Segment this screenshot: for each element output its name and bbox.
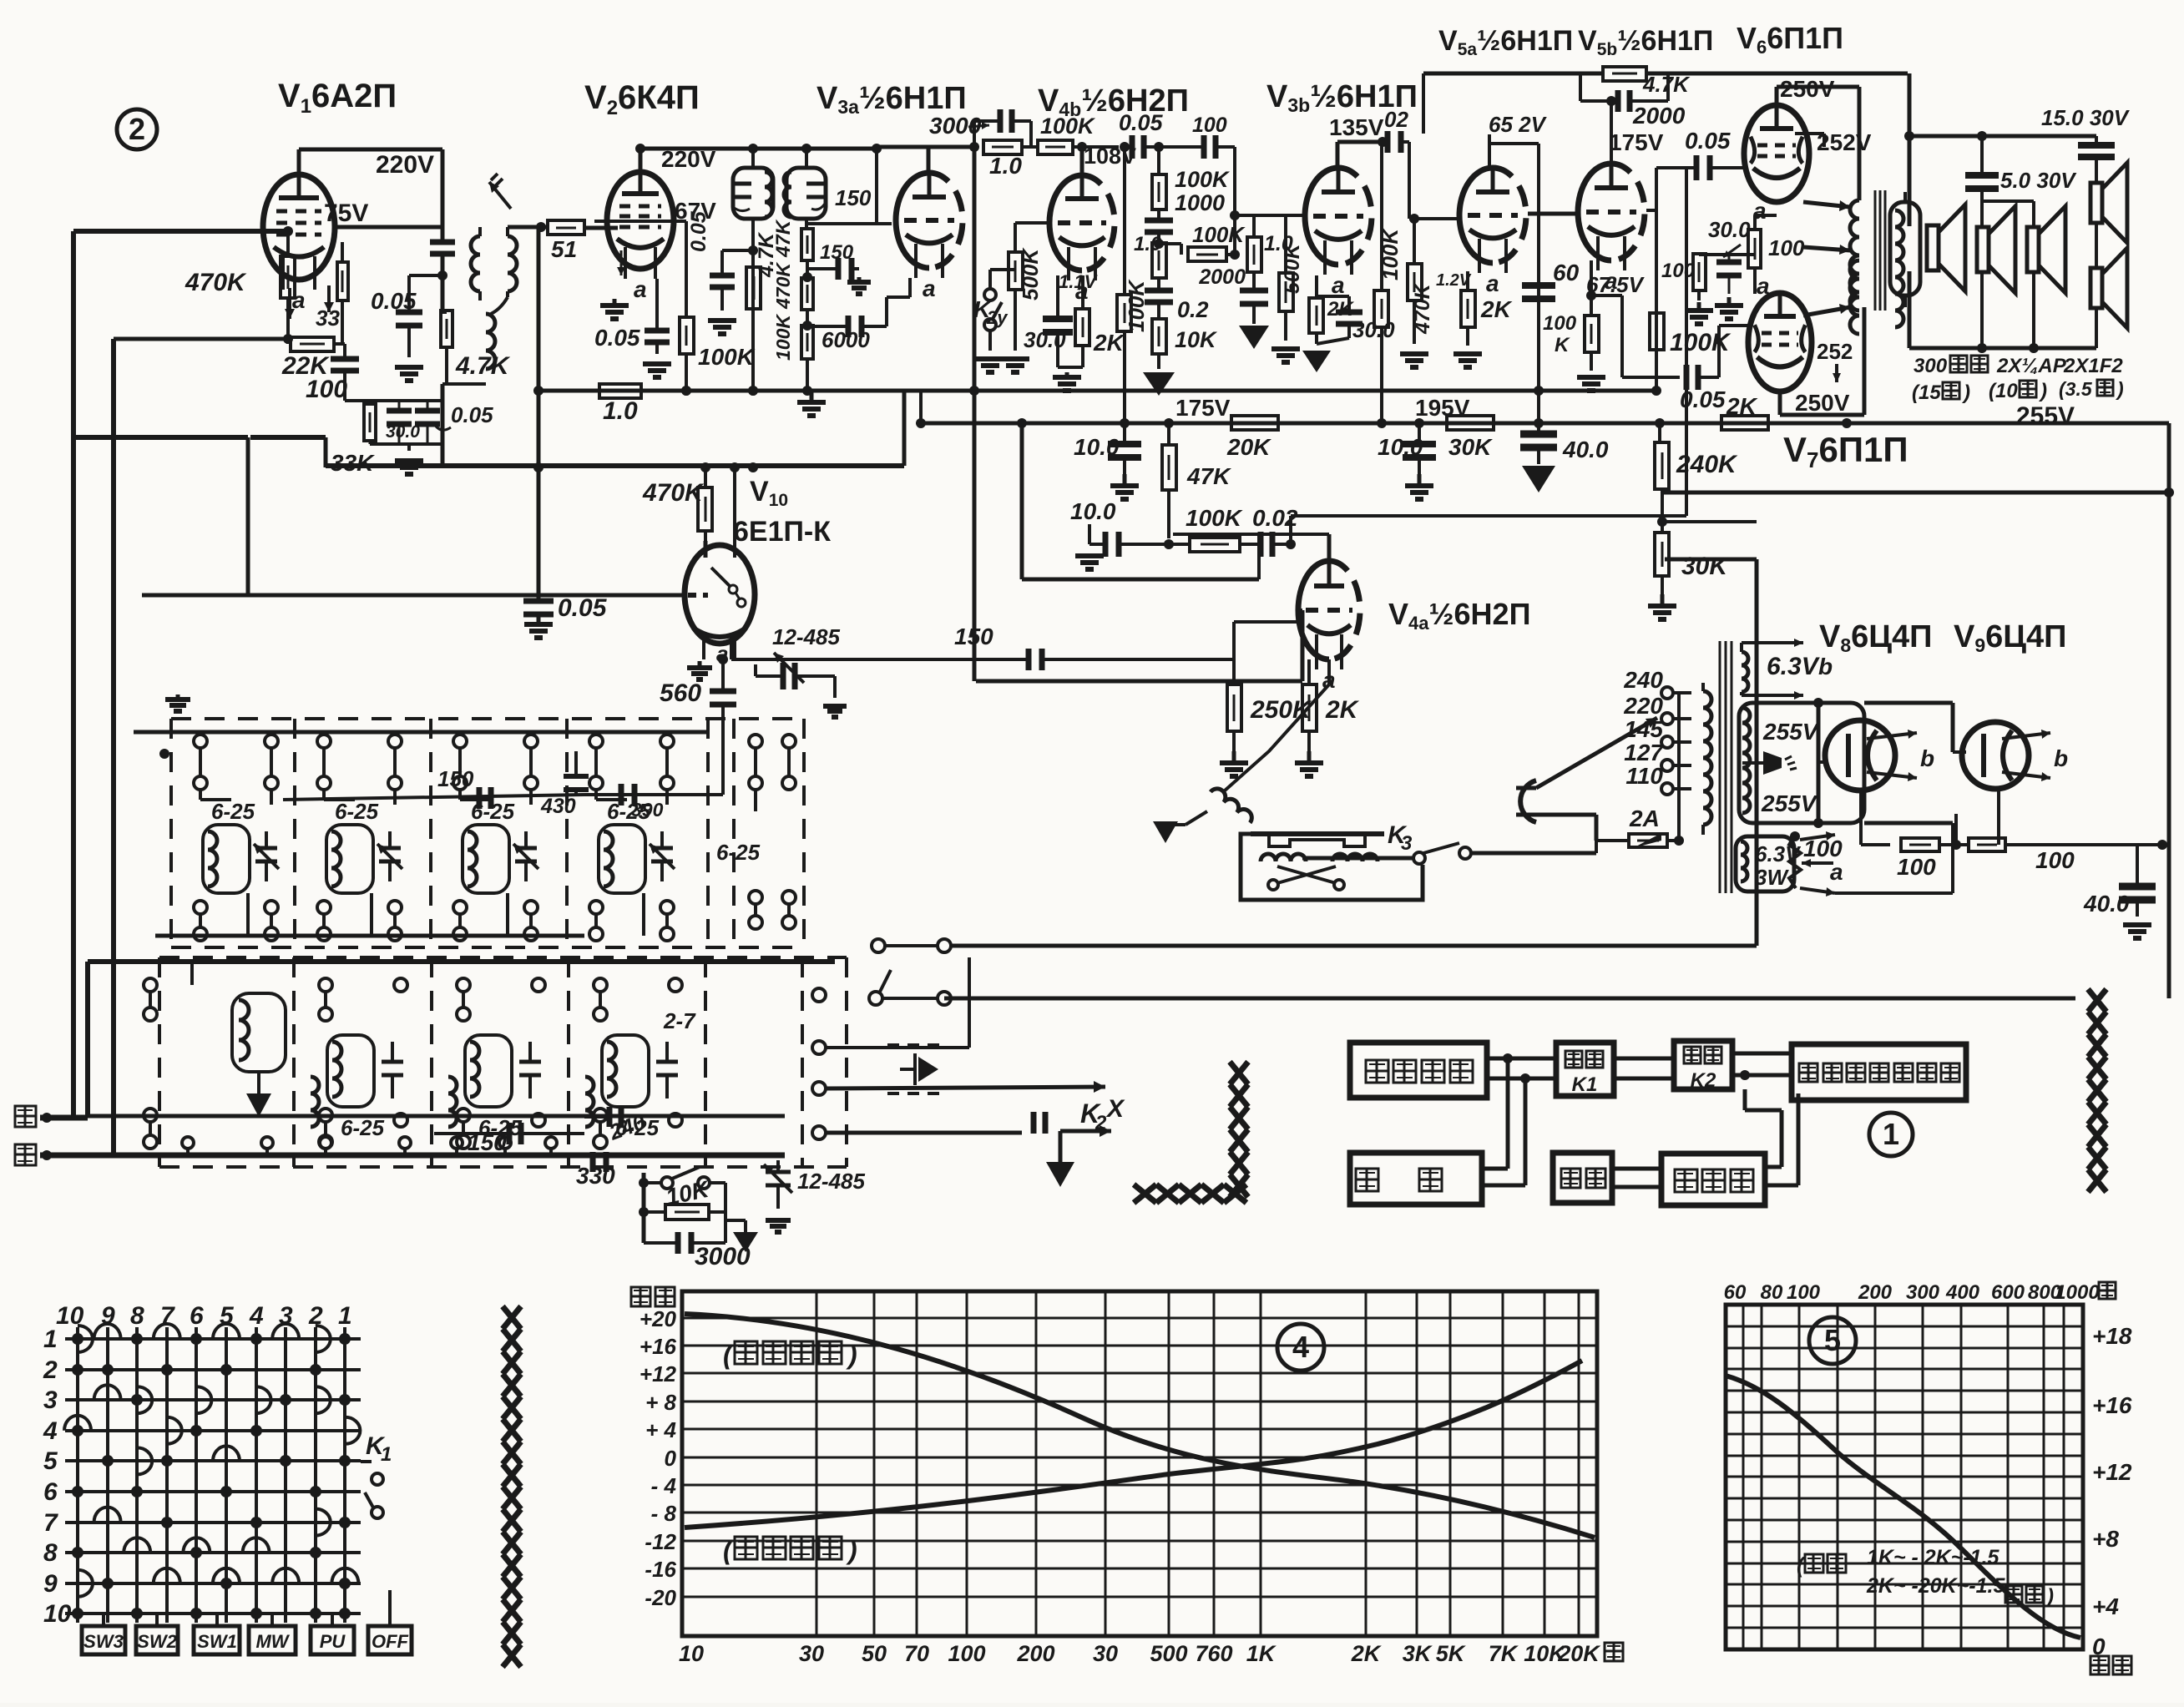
svg-text:0: 0	[665, 1446, 677, 1471]
svg-text:2K: 2K	[1726, 393, 1758, 419]
svg-text:2A: 2A	[1629, 806, 1660, 831]
svg-text:30.0: 30.0	[1024, 327, 1066, 352]
svg-text:2-7: 2-7	[663, 1008, 696, 1033]
svg-text:7K: 7K	[1489, 1641, 1519, 1666]
svg-text:150: 150	[954, 624, 993, 649]
svg-text:0.2: 0.2	[1177, 297, 1209, 322]
svg-text:330: 330	[576, 1163, 615, 1189]
svg-text:40.0: 40.0	[2083, 891, 2130, 917]
svg-text:100K: 100K	[1175, 167, 1231, 192]
svg-text:600: 600	[1991, 1281, 2025, 1304]
svg-text:-12: -12	[645, 1529, 676, 1554]
svg-text:0.05: 0.05	[371, 288, 417, 314]
svg-text:1.0: 1.0	[603, 397, 638, 425]
svg-text:40.0: 40.0	[1562, 437, 1609, 462]
svg-text:V96Ц4П: V96Ц4П	[1954, 619, 2067, 656]
svg-text:a: a	[1332, 272, 1345, 298]
svg-text:400: 400	[1945, 1281, 1980, 1304]
svg-text:b: b	[1920, 745, 1934, 771]
svg-text:51: 51	[551, 236, 577, 262]
svg-text:240: 240	[1623, 667, 1663, 693]
svg-text:2K: 2K	[1480, 296, 1513, 322]
svg-text:a: a	[1486, 270, 1499, 296]
svg-text:252: 252	[1817, 339, 1853, 364]
svg-text:470K: 470K	[642, 479, 705, 507]
svg-text:10: 10	[43, 1600, 72, 1628]
svg-text:20K: 20K	[1226, 434, 1271, 460]
svg-text:5: 5	[1824, 1323, 1841, 1357]
svg-text:500K: 500K	[1281, 242, 1304, 294]
svg-text:-20: -20	[645, 1585, 676, 1610]
svg-text:1.1V: 1.1V	[1059, 271, 1099, 292]
svg-text:K: K	[1555, 334, 1570, 356]
svg-text:a: a	[1830, 859, 1843, 885]
svg-text:255V: 255V	[1762, 719, 1820, 745]
svg-text:100: 100	[1192, 114, 1227, 137]
svg-text:30K: 30K	[1448, 434, 1493, 460]
svg-text:500K: 500K	[1018, 247, 1043, 300]
svg-text:4.7K: 4.7K	[455, 352, 511, 380]
svg-text:100K: 100K	[1378, 227, 1403, 280]
svg-text:2: 2	[43, 1356, 58, 1384]
svg-text:560: 560	[660, 679, 701, 707]
svg-text:135V: 135V	[1329, 114, 1384, 140]
svg-text:500: 500	[1150, 1641, 1187, 1666]
svg-text:6-25: 6-25	[341, 1115, 385, 1140]
svg-text:200: 200	[1858, 1281, 1893, 1304]
svg-text:200: 200	[1016, 1641, 1054, 1666]
svg-text:V66П1П: V66П1П	[1737, 21, 1843, 58]
svg-text:5K: 5K	[1436, 1641, 1467, 1666]
svg-text:V26К4П: V26К4П	[584, 79, 700, 119]
svg-text:6.3V: 6.3V	[1755, 841, 1802, 866]
svg-text:10: 10	[679, 1641, 704, 1666]
svg-text:430: 430	[540, 795, 576, 818]
svg-text:0.05: 0.05	[558, 594, 608, 622]
svg-text:9: 9	[43, 1570, 58, 1598]
svg-text:2X1F2: 2X1F2	[2063, 355, 2123, 377]
svg-text:2K: 2K	[1093, 330, 1125, 356]
svg-text:100K: 100K	[1670, 329, 1732, 356]
svg-text:6-25: 6-25	[211, 799, 255, 824]
svg-text:110: 110	[1625, 763, 1663, 789]
svg-text:(15: (15	[1912, 381, 1941, 404]
svg-text:+18: +18	[2092, 1323, 2132, 1349]
svg-text:760: 760	[1195, 1641, 1232, 1666]
svg-text:1: 1	[381, 1443, 392, 1466]
svg-text:3: 3	[1401, 832, 1413, 855]
svg-text:+4: +4	[2092, 1593, 2119, 1619]
svg-text:K1: K1	[1572, 1073, 1598, 1096]
svg-text:300: 300	[1914, 355, 1948, 377]
svg-text:100: 100	[1897, 854, 1936, 880]
svg-text:2у: 2у	[986, 307, 1009, 328]
svg-text:2: 2	[129, 112, 145, 146]
svg-text:60: 60	[1553, 260, 1580, 285]
svg-text:15.0 30V: 15.0 30V	[2041, 105, 2131, 130]
svg-text:30K: 30K	[1681, 553, 1729, 580]
svg-text:470K: 470K	[772, 262, 794, 310]
svg-text:100: 100	[1803, 836, 1843, 861]
svg-text:100K: 100K	[698, 344, 756, 370]
svg-text:100: 100	[1543, 312, 1577, 335]
svg-text:3W: 3W	[1755, 865, 1789, 890]
svg-text:2K: 2K	[1325, 696, 1360, 724]
svg-text:10.0: 10.0	[1070, 498, 1116, 524]
svg-text:3: 3	[43, 1386, 58, 1414]
svg-text:5: 5	[43, 1447, 58, 1475]
svg-text:100K: 100K	[1124, 279, 1149, 332]
svg-text:100: 100	[2035, 847, 2075, 873]
svg-text:OFF: OFF	[372, 1631, 409, 1652]
svg-text:a: a	[634, 276, 647, 302]
svg-text:100K: 100K	[1040, 114, 1096, 139]
svg-text:80: 80	[1761, 1281, 1783, 1304]
svg-text:5.0 30V: 5.0 30V	[2000, 168, 2077, 193]
svg-text:175V: 175V	[1609, 129, 1664, 155]
svg-text:4: 4	[249, 1302, 264, 1330]
svg-text:10K: 10K	[1175, 327, 1218, 352]
svg-text:+12: +12	[640, 1361, 677, 1386]
svg-text:0.05: 0.05	[451, 402, 493, 427]
svg-text:6.3V: 6.3V	[1767, 653, 1821, 680]
svg-text:33K: 33K	[331, 450, 375, 476]
svg-text:-16: -16	[645, 1557, 676, 1582]
svg-text:6Е1П-К: 6Е1П-К	[733, 516, 831, 548]
svg-text:100: 100	[948, 1641, 985, 1666]
svg-text:+ 4: + 4	[645, 1417, 676, 1442]
svg-text:1000: 1000	[2055, 1281, 2100, 1304]
svg-text:0.05: 0.05	[594, 325, 640, 351]
svg-text:6-25: 6-25	[335, 799, 379, 824]
svg-text:220: 220	[1623, 693, 1663, 719]
svg-text:127: 127	[1624, 740, 1664, 765]
svg-text:12-485: 12-485	[797, 1169, 865, 1194]
svg-text:100K: 100K	[1192, 222, 1246, 247]
svg-text:- 4: - 4	[651, 1473, 677, 1498]
svg-text:- 8: - 8	[651, 1501, 677, 1526]
svg-text:(10: (10	[1989, 380, 2018, 402]
svg-text:+16: +16	[2092, 1392, 2132, 1418]
svg-text:47K: 47K	[772, 219, 795, 258]
svg-text:(3.5: (3.5	[2059, 378, 2093, 400]
svg-text:+20: +20	[640, 1306, 677, 1331]
svg-text:4: 4	[1292, 1330, 1309, 1364]
svg-text:255V: 255V	[1761, 790, 1818, 816]
svg-text:470K: 470K	[1411, 282, 1434, 335]
svg-text:6000: 6000	[822, 327, 870, 352]
svg-text:145: 145	[1624, 716, 1663, 742]
svg-text:6-25: 6-25	[716, 840, 761, 865]
svg-text:1.0: 1.0	[989, 153, 1022, 179]
svg-text:50: 50	[862, 1641, 887, 1666]
svg-text:10.0: 10.0	[1074, 434, 1120, 460]
svg-text:33: 33	[316, 306, 340, 331]
svg-text:250V: 250V	[1795, 390, 1850, 416]
svg-text:+ 8: + 8	[645, 1390, 676, 1415]
svg-text:2X¼AP: 2X¼AP	[1996, 355, 2067, 377]
svg-text:+16: +16	[640, 1334, 677, 1359]
svg-text:0.05: 0.05	[1119, 110, 1164, 135]
svg-text:V86Ц4П: V86Ц4П	[1819, 619, 1933, 656]
svg-text:b: b	[2054, 745, 2068, 771]
svg-text:47K: 47K	[1186, 463, 1231, 489]
svg-text:1: 1	[338, 1302, 352, 1330]
svg-text:a: a	[923, 275, 936, 301]
svg-text:K2: K2	[1691, 1069, 1716, 1092]
svg-text:100: 100	[1661, 260, 1696, 282]
svg-text:2000: 2000	[1198, 265, 1246, 289]
svg-text:6: 6	[43, 1478, 58, 1506]
svg-text:+12: +12	[2092, 1459, 2132, 1485]
svg-text:2K~ -20K~-1.5: 2K~ -20K~-1.5	[1866, 1574, 2005, 1598]
svg-text:1: 1	[1883, 1117, 1899, 1151]
svg-text:60: 60	[1724, 1281, 1747, 1304]
svg-text:100: 100	[1768, 235, 1805, 260]
svg-text:175V: 175V	[1175, 395, 1231, 421]
svg-text:255V: 255V	[2016, 402, 2075, 430]
svg-text:30: 30	[1093, 1641, 1118, 1666]
svg-text:390: 390	[631, 799, 664, 821]
svg-text:8: 8	[43, 1539, 58, 1567]
svg-text:2000: 2000	[1632, 103, 1686, 129]
svg-text:MW: MW	[255, 1631, 290, 1652]
svg-text:30.0: 30.0	[1352, 317, 1395, 342]
svg-text:75V: 75V	[324, 199, 368, 227]
svg-text:12-485: 12-485	[772, 624, 840, 649]
svg-text:a: a	[1757, 273, 1770, 299]
svg-text:100K: 100K	[1186, 505, 1243, 531]
svg-text:150: 150	[835, 185, 872, 210]
svg-text:220V: 220V	[376, 151, 434, 179]
svg-text:2K: 2K	[1351, 1641, 1383, 1666]
svg-text:1: 1	[43, 1326, 58, 1353]
svg-text:10.0: 10.0	[1378, 434, 1423, 460]
svg-text:8: 8	[130, 1302, 144, 1330]
svg-text:30.0: 30.0	[386, 422, 420, 442]
svg-text:30.0: 30.0	[1708, 217, 1751, 242]
svg-text:6: 6	[190, 1302, 204, 1330]
svg-text:70: 70	[904, 1641, 929, 1666]
svg-text:7: 7	[43, 1509, 58, 1537]
svg-text:+8: +8	[2092, 1526, 2119, 1552]
svg-text:30: 30	[799, 1641, 824, 1666]
svg-text:SW3: SW3	[83, 1631, 124, 1652]
svg-text:240K: 240K	[1676, 451, 1738, 478]
svg-text:20K: 20K	[1557, 1641, 1601, 1666]
svg-text:X: X	[1105, 1095, 1125, 1123]
svg-text:150: 150	[820, 241, 854, 264]
svg-text:PU: PU	[320, 1631, 346, 1652]
svg-text:470K: 470K	[185, 269, 247, 296]
svg-text:SW2: SW2	[137, 1631, 177, 1652]
svg-text:3000: 3000	[695, 1243, 751, 1270]
svg-text:3K: 3K	[1403, 1641, 1433, 1666]
svg-text:1000: 1000	[1175, 190, 1225, 215]
svg-text:4: 4	[43, 1417, 58, 1445]
svg-text:V76П1П: V76П1П	[1783, 430, 1908, 472]
svg-text:0.05: 0.05	[1685, 128, 1731, 154]
svg-text:100: 100	[1787, 1281, 1821, 1304]
svg-text:02: 02	[1384, 107, 1408, 132]
svg-text:220V: 220V	[661, 146, 716, 172]
svg-text:1K: 1K	[1246, 1641, 1277, 1666]
svg-text:): )	[846, 1535, 857, 1565]
svg-text:65 2V: 65 2V	[1489, 112, 1548, 137]
svg-text:): )	[846, 1340, 857, 1370]
svg-text:V16А2П: V16А2П	[278, 78, 397, 118]
svg-text:SW1: SW1	[197, 1631, 237, 1652]
svg-text:100: 100	[306, 376, 347, 403]
svg-text:0.05: 0.05	[687, 210, 710, 252]
svg-text:150: 150	[437, 766, 474, 791]
svg-text:b: b	[1818, 654, 1833, 679]
svg-text:100K: 100K	[772, 314, 794, 361]
svg-text:300: 300	[1906, 1281, 1940, 1304]
svg-text:1K~ - 2K~-1.5: 1K~ - 2K~-1.5	[1867, 1546, 2000, 1569]
